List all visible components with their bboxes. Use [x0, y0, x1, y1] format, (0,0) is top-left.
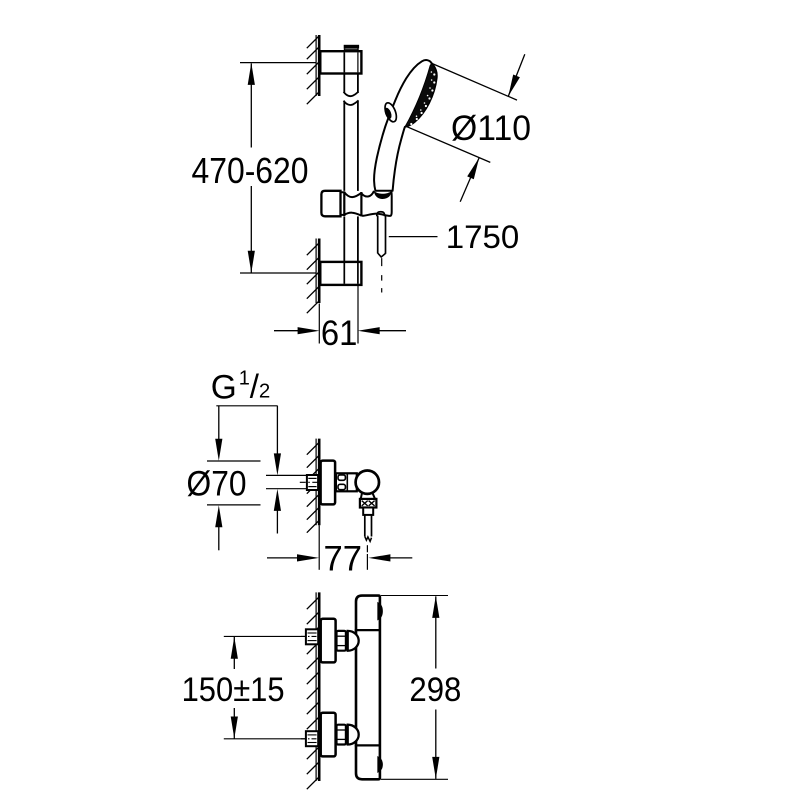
slider holder on rail	[321, 189, 391, 217]
shower hose (top drawing)	[378, 216, 386, 258]
union nut bottom (bottom view)	[337, 725, 346, 745]
wall middle view	[307, 439, 319, 533]
handle-holder shadow crescent	[374, 191, 392, 199]
supply nipple top (bottom view)	[301, 629, 318, 644]
label G 1/2	[211, 368, 278, 407]
union nut top (bottom view)	[337, 631, 346, 651]
valve union nut and body (middle)	[336, 473, 357, 491]
dimension Ø70	[187, 406, 261, 551]
union dome top (bottom view)	[348, 631, 359, 651]
wall bottom view	[307, 592, 319, 789]
knurled hose nut (middle)	[360, 499, 377, 508]
union dome bottom (bottom view)	[348, 725, 359, 745]
spray face band with nozzles	[405, 63, 437, 127]
dimension 61	[274, 285, 406, 353]
escutcheon bottom (bottom view)	[321, 713, 336, 757]
svg-text:470-620: 470-620	[192, 150, 309, 191]
svg-text:G: G	[211, 369, 237, 407]
escutcheon top (bottom view)	[321, 619, 336, 663]
wall bracket top	[320, 51, 361, 73]
handle mark top (knob arc)	[379, 604, 382, 619]
svg-text:Ø110: Ø110	[451, 109, 531, 148]
svg-text:1: 1	[239, 368, 250, 390]
svg-text:Ø70: Ø70	[187, 463, 247, 503]
dimension 77	[267, 525, 412, 578]
escutcheon middle	[321, 461, 336, 505]
supply nipple bottom (bottom view)	[301, 731, 318, 746]
hose centerline (middle)	[366, 545, 368, 552]
dimension G1/2 nipple arrows	[266, 406, 307, 534]
dimension 150±15 extension lines	[224, 636, 318, 738]
dimension 298	[381, 596, 461, 780]
hose adapter (middle)	[363, 508, 373, 515]
G1/2 wall nipple (middle)	[300, 475, 319, 490]
valve ball joint (middle)	[356, 471, 379, 494]
wall bracket bottom	[320, 262, 361, 285]
wall top-lower segment	[307, 239, 319, 314]
svg-text:77: 77	[324, 539, 363, 578]
thermostat body	[355, 596, 381, 780]
dimension Ø110	[406, 54, 531, 202]
shower rail with end cap	[344, 45, 360, 262]
wall top-upper segment	[307, 35, 319, 104]
hose collar bump under holder	[377, 212, 385, 216]
svg-text:298: 298	[409, 671, 461, 709]
hose centerline dash-dot	[381, 258, 383, 292]
hose start (middle)	[365, 515, 372, 542]
svg-text:1750: 1750	[446, 219, 520, 255]
dimension 150±15	[182, 637, 285, 739]
dimension 470-620	[192, 63, 317, 273]
spray mode button	[383, 101, 399, 123]
dimension 1750 leader	[389, 219, 519, 255]
svg-text:61: 61	[321, 314, 358, 353]
handle mark bottom (knob arc)	[379, 758, 382, 771]
valve outlet neck (middle)	[361, 493, 375, 499]
svg-text:2: 2	[259, 380, 270, 403]
svg-text:150±15: 150±15	[182, 671, 285, 709]
hand shower body outline	[374, 60, 437, 191]
